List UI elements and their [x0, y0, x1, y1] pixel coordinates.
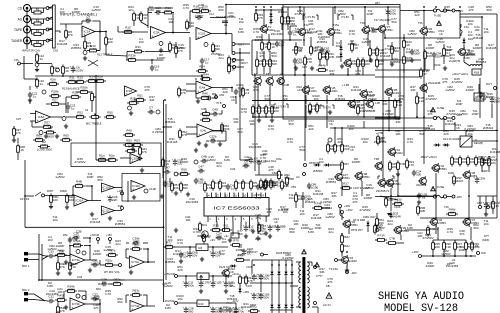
- label D123: [219, 265, 231, 269]
- wire: [98, 283, 100, 285]
- wire: [126, 248, 129, 250]
- wire: [258, 114, 260, 117]
- wire: [23, 56, 25, 79]
- wire: [65, 24, 67, 28]
- junction: [423, 116, 425, 118]
- wire: [115, 187, 123, 189]
- wire: [251, 260, 253, 274]
- junction: [363, 116, 365, 118]
- resistor R130: [392, 198, 404, 206]
- ground: [64, 124, 68, 128]
- wire: [221, 125, 223, 131]
- board outline R: [122, 174, 160, 202]
- svg-text:103: 103: [59, 10, 64, 14]
- bracket 8-1.7V: [320, 105, 334, 110]
- wire: [225, 5, 227, 12]
- junction: [239, 52, 241, 54]
- wire: [60, 23, 82, 25]
- transistor T39: [374, 161, 382, 171]
- wire: [162, 168, 164, 178]
- svg-text:T27 2SC2383: T27 2SC2383: [374, 18, 391, 22]
- svg-text:+: +: [126, 92, 128, 96]
- resistor R29: [133, 11, 142, 22]
- svg-text:IC5A: IC5A: [38, 115, 45, 119]
- svg-text:104: 104: [101, 281, 106, 285]
- wire: [403, 34, 405, 41]
- svg-text:+: +: [197, 36, 199, 40]
- svg-text:-: -: [71, 254, 72, 258]
- svg-text:6.8K: 6.8K: [464, 56, 470, 60]
- svg-text:-: -: [197, 28, 198, 32]
- wire: [375, 76, 420, 78]
- svg-text:+: +: [71, 306, 73, 310]
- svg-text:10K: 10K: [233, 120, 238, 124]
- wire: [42, 256, 48, 260]
- svg-text:47K: 47K: [144, 88, 149, 92]
- label 24: [452, 258, 455, 262]
- svg-text:10K: 10K: [168, 20, 173, 24]
- capacitor C8: [70, 65, 84, 72]
- svg-text:1N4148: 1N4148: [90, 220, 101, 224]
- terminal B: [223, 105, 226, 108]
- junction: [326, 100, 328, 102]
- wire: [147, 8, 149, 13]
- ground: [228, 238, 232, 242]
- svg-text:33K: 33K: [343, 185, 348, 189]
- ground: [65, 205, 69, 209]
- svg-text:-: -: [131, 154, 132, 158]
- label C3B: [76, 230, 82, 234]
- svg-text:560: 560: [97, 178, 102, 182]
- label INPUT(L CHANNEL): [60, 12, 98, 17]
- wire: [231, 88, 233, 93]
- svg-text:50K: 50K: [36, 137, 41, 141]
- fuse F2A: [460, 24, 469, 36]
- svg-text:1u/50V: 1u/50V: [361, 40, 371, 44]
- svg-text:R75: R75: [233, 239, 239, 243]
- svg-text:C14: C14: [209, 12, 214, 16]
- ground: [129, 270, 133, 274]
- resistor R32: [169, 41, 178, 52]
- junction: [432, 255, 434, 257]
- svg-text:47K: 47K: [327, 280, 332, 284]
- svg-text:47K: 47K: [52, 101, 57, 105]
- svg-text:47K: 47K: [442, 80, 447, 84]
- svg-text:+36V: +36V: [344, 204, 351, 208]
- label K1: [20, 197, 30, 201]
- svg-text:MIC: MIC: [96, 287, 101, 291]
- wire: [348, 229, 350, 234]
- svg-text:560: 560: [419, 132, 424, 136]
- resistor R22: [228, 55, 237, 66]
- junction: [291, 282, 293, 284]
- wire: [225, 11, 227, 34]
- ground: [49, 204, 53, 208]
- junction: [387, 6, 389, 8]
- svg-text:1u/50V: 1u/50V: [445, 88, 455, 92]
- junction: [443, 255, 445, 257]
- svg-text:2N4007: 2N4007: [453, 179, 464, 183]
- svg-text:47K: 47K: [198, 6, 203, 10]
- wire: [17, 138, 19, 143]
- svg-text:ZD1: ZD1: [201, 223, 207, 227]
- junction: [271, 282, 273, 284]
- transistor T19: [361, 25, 377, 35]
- capacitor C110: [481, 157, 492, 164]
- wire: [481, 156, 483, 159]
- svg-text:100P: 100P: [445, 48, 452, 52]
- label T26: [418, 21, 423, 25]
- wire: [232, 222, 234, 236]
- label T30 value: [466, 53, 476, 57]
- svg-text:47K: 47K: [133, 246, 138, 250]
- terminal +15V mic: [97, 238, 100, 241]
- resistor R40: [310, 44, 319, 55]
- svg-text:33K: 33K: [165, 9, 170, 13]
- svg-text:1K: 1K: [274, 220, 278, 224]
- capacitor C52b: [209, 135, 217, 144]
- svg-text:4.7K: 4.7K: [105, 292, 111, 296]
- svg-text:C?T?: C?T?: [316, 274, 323, 278]
- label S2W: [482, 169, 488, 173]
- svg-text:-: -: [83, 26, 84, 30]
- svg-text:2N5551: 2N5551: [71, 46, 82, 50]
- capacitor C3W: [483, 201, 495, 208]
- wire: [84, 245, 90, 247]
- svg-text:INPUT: INPUT: [240, 61, 248, 65]
- trimmer M1: [76, 250, 80, 254]
- svg-text:R67: R67: [343, 162, 349, 166]
- wire: [278, 309, 280, 313]
- crossing wires: [88, 60, 98, 66]
- resistor R3W: [492, 199, 500, 210]
- wire: [291, 260, 293, 270]
- svg-text:47K: 47K: [255, 216, 260, 220]
- junction: [72, 194, 74, 196]
- resistor R15: [122, 26, 134, 34]
- svg-text:560: 560: [243, 163, 248, 167]
- label 2x2N5401: [318, 35, 331, 39]
- svg-text:V53: V53: [291, 185, 296, 189]
- junction: [341, 251, 343, 253]
- trimmer VR5: [204, 43, 208, 47]
- wire: [492, 196, 494, 202]
- resistor R64c: [341, 242, 351, 253]
- wire: [217, 140, 226, 142]
- label 2N5060: [313, 169, 323, 173]
- svg-text:47K: 47K: [248, 279, 253, 283]
- wire: [488, 156, 490, 159]
- terminal AC L: [261, 253, 264, 256]
- svg-text:1K: 1K: [329, 122, 333, 126]
- trimmer VR13: [328, 138, 332, 142]
- svg-text:2200P: 2200P: [426, 264, 435, 268]
- wire: [81, 21, 83, 24]
- svg-text:10K: 10K: [470, 160, 475, 164]
- wire: [460, 16, 482, 18]
- label RL1B: [474, 71, 479, 75]
- ground: [56, 271, 60, 275]
- capacitor C22: [28, 91, 38, 98]
- label NFB: [482, 238, 489, 242]
- wire rail mid3: [330, 127, 430, 129]
- transistor T47: [462, 217, 479, 227]
- svg-text:L1B: L1B: [375, 101, 380, 105]
- svg-text:100P: 100P: [471, 112, 478, 116]
- wire rail mid1: [252, 100, 400, 102]
- op-amp IC14c: [130, 256, 145, 268]
- capacitor C87b: [301, 194, 312, 201]
- capacitor C47: [198, 165, 205, 174]
- wire: [143, 294, 147, 296]
- wire: [65, 97, 67, 113]
- label 15V: [164, 272, 175, 276]
- wire: [215, 94, 217, 98]
- transistor T44: [418, 176, 426, 186]
- svg-text:4.7K: 4.7K: [193, 230, 199, 234]
- resistor R152: [443, 240, 452, 251]
- svg-text:100: 100: [69, 198, 74, 202]
- label 2SC90: [416, 183, 426, 187]
- svg-text:47K: 47K: [68, 33, 73, 37]
- wire: [209, 275, 232, 277]
- wire: [263, 51, 265, 59]
- wire: [463, 44, 465, 48]
- svg-text:1N4148: 1N4148: [351, 88, 362, 92]
- junction: [470, 255, 472, 257]
- label C49: [230, 167, 236, 171]
- ground: [328, 110, 332, 114]
- resistor R1C: [416, 94, 425, 105]
- junction: [163, 126, 165, 128]
- trimmer VR17: [375, 228, 379, 232]
- terminal sec A: [314, 266, 317, 269]
- svg-text:2N5401: 2N5401: [227, 297, 238, 301]
- svg-text:22u: 22u: [328, 230, 333, 234]
- wire: [270, 10, 272, 12]
- svg-text:12: 12: [225, 193, 228, 197]
- ground: [396, 172, 400, 176]
- svg-text:10K: 10K: [185, 218, 190, 222]
- svg-text:220: 220: [435, 245, 440, 249]
- wire: [17, 154, 19, 160]
- ground: [35, 67, 39, 71]
- switch K1: [35, 192, 41, 196]
- svg-text:33K: 33K: [331, 194, 336, 198]
- svg-text:T8: T8: [266, 72, 270, 76]
- junction: [347, 74, 349, 76]
- wire: [437, 227, 439, 240]
- wire: [231, 34, 233, 44]
- terminal TUNER: [46, 39, 49, 42]
- label D8: [309, 161, 320, 165]
- resistor R86: [341, 142, 350, 153]
- resistor R1E: [376, 57, 385, 68]
- svg-text:6.8K: 6.8K: [308, 230, 314, 234]
- svg-text:1u: 1u: [155, 67, 159, 71]
- capacitor C109: [258, 273, 270, 280]
- resistor R117: [389, 160, 398, 171]
- resistor R1m: [96, 154, 108, 162]
- label C107: [246, 284, 253, 288]
- wire: [100, 264, 103, 266]
- junction: [454, 255, 456, 257]
- wire: [105, 45, 107, 55]
- ground: [64, 260, 68, 264]
- label +9V2: [210, 238, 215, 242]
- wire: [327, 142, 329, 145]
- terminal MO1: [119, 264, 122, 267]
- wire: [117, 26, 119, 32]
- capacitor C94: [432, 51, 442, 58]
- svg-text:4.7K: 4.7K: [253, 30, 259, 34]
- svg-text:-: -: [37, 111, 38, 115]
- svg-text:47K: 47K: [459, 232, 464, 236]
- trimmer P2: [174, 172, 178, 176]
- svg-text:103: 103: [138, 40, 143, 44]
- label C87: [302, 65, 308, 69]
- svg-text:100P: 100P: [57, 252, 64, 256]
- svg-text:TAPE: TAPE: [14, 28, 22, 32]
- bridge diode D107: [284, 303, 287, 310]
- svg-text:22u: 22u: [218, 56, 223, 60]
- wire: [48, 17, 53, 19]
- wire: [85, 185, 92, 187]
- resistor R1F: [374, 223, 383, 234]
- wire: [394, 108, 396, 117]
- svg-text:2200P: 2200P: [348, 42, 357, 46]
- terminal +36V d: [419, 255, 422, 258]
- wire: [55, 30, 60, 32]
- wire: [432, 240, 434, 243]
- label 3mV: [232, 272, 239, 276]
- trimmer C11B: [144, 189, 148, 193]
- svg-text:220: 220: [222, 90, 227, 94]
- ground: [390, 62, 394, 66]
- svg-text:SP: SP: [485, 202, 489, 205]
- fuse F5A mid: [433, 116, 446, 119]
- diode D14: [443, 143, 450, 146]
- svg-text:2.2: 2.2: [245, 91, 250, 95]
- wire: [97, 241, 99, 245]
- wire: [239, 285, 241, 287]
- svg-text:2200P: 2200P: [56, 244, 65, 248]
- capacitor C36: [72, 232, 79, 241]
- wire: [340, 58, 342, 62]
- svg-text:560: 560: [188, 309, 193, 313]
- svg-text:2N5551: 2N5551: [165, 260, 176, 264]
- svg-text:2200P: 2200P: [72, 10, 81, 14]
- svg-text:C2W: C2W: [478, 176, 485, 180]
- resistor R63c: [130, 289, 142, 297]
- op-amp IC3A: [151, 27, 166, 39]
- svg-text:50K: 50K: [81, 89, 86, 93]
- svg-text:10K: 10K: [249, 122, 254, 126]
- svg-text:2SA1490: 2SA1490: [344, 259, 357, 263]
- transistor T45B: [197, 231, 208, 238]
- wire: [147, 13, 149, 29]
- svg-text:100K: 100K: [202, 76, 209, 80]
- label 2SC3G3: [428, 227, 439, 231]
- svg-text:2200P: 2200P: [364, 196, 373, 200]
- junction: [41, 279, 43, 281]
- ground: [159, 48, 163, 52]
- resistor R20: [199, 5, 211, 13]
- label 9v: [224, 234, 229, 238]
- wire: [416, 92, 418, 96]
- svg-text:1K: 1K: [72, 265, 76, 269]
- junction: [95, 75, 97, 77]
- regulator IC8: [196, 244, 208, 251]
- svg-text:T3B: T3B: [374, 157, 379, 161]
- svg-text:4K7: 4K7: [58, 297, 64, 301]
- wire: [347, 68, 349, 75]
- resistor R156: [465, 240, 474, 251]
- wire: [432, 249, 434, 256]
- terminal OUT: [232, 43, 235, 46]
- wire: [491, 104, 493, 118]
- svg-text:2N5551: 2N5551: [115, 222, 126, 226]
- label C16 value: [211, 52, 221, 56]
- svg-text:1u/50V: 1u/50V: [55, 175, 65, 179]
- resistor R10: [87, 44, 99, 52]
- resistor R107: [443, 46, 453, 57]
- junction: [212, 246, 214, 248]
- svg-text:22u: 22u: [371, 30, 376, 34]
- svg-text:47u/25V: 47u/25V: [72, 68, 83, 72]
- junction: [147, 261, 149, 263]
- svg-text:R62c: R62c: [343, 235, 351, 239]
- wire: [76, 91, 81, 93]
- IC7 bottom pin numbers: [209, 217, 261, 221]
- wire: [403, 63, 405, 73]
- junction: [62, 75, 64, 77]
- svg-text:220: 220: [177, 268, 182, 272]
- transistor T38: [354, 171, 370, 181]
- ground: [345, 268, 349, 272]
- transistor T43: [377, 178, 393, 188]
- svg-text:R6?2 2N?: R6?2 2N?: [351, 228, 363, 232]
- svg-text:150K: 150K: [223, 127, 230, 131]
- diode D8: [314, 163, 321, 166]
- resistor R1W: [481, 156, 490, 167]
- potentiometer VOL: [91, 91, 96, 102]
- wire: [206, 140, 209, 142]
- svg-text:BASS: BASS: [47, 135, 54, 139]
- zener ZD3: [389, 211, 401, 218]
- wire: [387, 7, 389, 25]
- wire: [296, 261, 301, 263]
- label C4B: [201, 107, 207, 111]
- capacitor C103: [417, 192, 428, 199]
- label FUSE3: [437, 106, 444, 110]
- svg-text:14: 14: [207, 193, 210, 197]
- resistor R14: [86, 75, 98, 83]
- svg-text:10K: 10K: [135, 48, 140, 52]
- junction: [423, 6, 425, 8]
- wire: [460, 13, 497, 15]
- svg-text:-: -: [152, 27, 153, 31]
- wire: [34, 259, 39, 261]
- svg-text:1K: 1K: [65, 69, 69, 73]
- svg-text:C?B: C?B: [389, 237, 395, 241]
- resistor R44b: [316, 64, 328, 72]
- resistor R30: [140, 11, 149, 22]
- diode D1: [269, 12, 272, 19]
- junction: [294, 74, 296, 76]
- junction: [89, 237, 91, 239]
- svg-text:2200P: 2200P: [466, 88, 475, 92]
